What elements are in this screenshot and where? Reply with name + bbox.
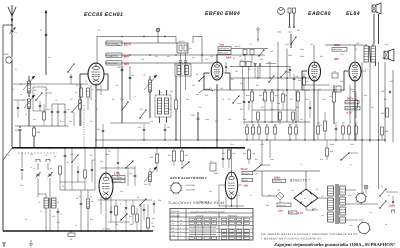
svg-text:C50a: C50a — [270, 158, 274, 161]
svg-text:P9: P9 — [137, 196, 139, 199]
svg-text:A1: A1 — [48, 56, 50, 59]
svg-text:R4: R4 — [76, 84, 78, 87]
svg-text:C4a: C4a — [70, 153, 73, 156]
svg-text:R19: R19 — [210, 55, 213, 58]
svg-text:C20: C20 — [117, 66, 120, 69]
svg-text:C42a: C42a — [305, 98, 309, 101]
svg-text:L2: L2 — [50, 167, 52, 170]
svg-text:R21: R21 — [231, 78, 234, 81]
svg-text:P1: P1 — [8, 154, 10, 157]
svg-text:R22: R22 — [215, 120, 218, 123]
svg-text:560: 560 — [33, 118, 36, 121]
svg-text:CTI 100M: CTI 100M — [102, 228, 111, 231]
svg-text:R47: R47 — [318, 88, 321, 91]
svg-text:C15: C15 — [167, 55, 170, 58]
svg-text:Tr1: Tr1 — [300, 163, 303, 166]
svg-text:A1: A1 — [75, 224, 77, 227]
svg-text:C35: C35 — [240, 82, 243, 85]
svg-text:OKO: OKO — [4, 53, 9, 56]
svg-text:R26: R26 — [271, 108, 274, 111]
svg-text:C39: C39 — [284, 94, 287, 97]
svg-text:C45: C45 — [329, 95, 332, 98]
svg-text:L4: L4 — [20, 93, 22, 96]
svg-text:+ MERENO NA POCATKU ROZSAHU SV: + MERENO NA POCATKU ROZSAHU SV — [261, 237, 322, 240]
svg-text:R9: R9 — [110, 55, 112, 58]
svg-text:A3: A3 — [25, 218, 27, 221]
svg-text:R3: R3 — [62, 185, 64, 188]
svg-text:P6: P6 — [228, 98, 230, 101]
svg-text:L19: L19 — [321, 214, 324, 217]
svg-text:R32: R32 — [116, 171, 119, 174]
svg-text:R30a: R30a — [300, 55, 304, 58]
svg-text:PRECTENO: PRECTENO — [333, 48, 343, 51]
svg-text:5-5: 5-5 — [97, 88, 100, 91]
svg-text:C5: C5 — [25, 113, 27, 116]
svg-text:R62: R62 — [130, 223, 133, 226]
svg-text:C7: C7 — [22, 99, 24, 102]
svg-text:NASTAVENO: NASTAVENO — [107, 54, 119, 57]
svg-text:1k: 1k — [85, 80, 87, 83]
svg-text:L6: L6 — [40, 210, 42, 213]
svg-text:C48: C48 — [381, 90, 384, 93]
svg-text:PRECTENO: PRECTENO — [107, 62, 118, 65]
svg-text:EBF80 EM84: EBF80 EM84 — [205, 11, 240, 17]
svg-text:EM84: EM84 — [214, 172, 218, 175]
svg-text:- EL EL84: - EL EL84 — [185, 189, 195, 192]
svg-text:C28a: C28a — [277, 31, 281, 34]
svg-text:R40: R40 — [246, 124, 249, 127]
svg-text:P4: P4 — [112, 98, 114, 101]
svg-text:C47b: C47b — [260, 143, 264, 146]
svg-text:C24: C24 — [140, 108, 143, 111]
svg-text:C54: C54 — [90, 218, 93, 221]
svg-text:76V: 76V — [124, 62, 131, 66]
svg-text:R49: R49 — [340, 80, 343, 83]
svg-text:R37: R37 — [129, 215, 132, 218]
svg-text:C29: C29 — [288, 31, 291, 34]
svg-text:150: 150 — [57, 221, 60, 224]
svg-text:R31: R31 — [297, 29, 300, 32]
svg-text:R34: R34 — [185, 154, 188, 157]
svg-text:C31: C31 — [248, 68, 251, 71]
svg-text:C41: C41 — [310, 43, 313, 46]
svg-text:C44: C44 — [305, 80, 308, 83]
svg-text:107V: 107V — [124, 43, 132, 47]
svg-text:KLIDOVE: KLIDOVE — [196, 214, 204, 217]
svg-text:C22: C22 — [115, 84, 118, 87]
svg-text:P1: P1 — [381, 185, 383, 188]
svg-text:120/6,3VA: 120/6,3VA — [278, 204, 287, 207]
svg-text:R11: R11 — [155, 55, 158, 58]
svg-text:C26a: C26a — [205, 118, 209, 121]
svg-text:C17: C17 — [70, 98, 73, 101]
svg-text:B1: B1 — [292, 189, 294, 192]
svg-text:B2: B2 — [316, 188, 318, 191]
svg-text:L3: L3 — [20, 83, 22, 86]
svg-text:EL84: EL84 — [346, 11, 360, 17]
svg-text:C44: C44 — [258, 124, 261, 127]
svg-text:C14: C14 — [60, 120, 63, 123]
svg-text:P8: P8 — [288, 71, 290, 74]
svg-text:C51: C51 — [355, 122, 358, 125]
svg-text:C33: C33 — [220, 87, 223, 90]
svg-text:L4 L5: L4 L5 — [144, 183, 149, 186]
svg-text:14V: 14V — [226, 56, 231, 60]
svg-text:10n: 10n — [295, 124, 298, 127]
svg-text:PRI MERENI NAPETI A PROUDU PRE: PRI MERENI NAPETI A PROUDU PREPINAC PRIJ… — [261, 233, 358, 236]
svg-text:C3: C3 — [79, 195, 81, 198]
svg-text:C34: C34 — [108, 150, 111, 153]
svg-text:R8: R8 — [90, 120, 92, 123]
svg-text:L17: L17 — [143, 74, 146, 77]
svg-text:ECC85 ECH81: ECC85 ECH81 — [84, 12, 123, 18]
svg-text:C36: C36 — [120, 190, 123, 193]
svg-text:C1a: C1a — [20, 184, 23, 187]
svg-text:P7: P7 — [250, 43, 252, 46]
svg-text:R50: R50 — [289, 124, 292, 127]
svg-text:Tr2: Tr2 — [356, 42, 359, 45]
svg-text:100: 100 — [152, 225, 155, 228]
svg-text:C55: C55 — [268, 194, 271, 197]
svg-text:207V: 207V — [347, 97, 354, 101]
svg-text:C50: C50 — [335, 122, 338, 125]
svg-text:P2a: P2a — [320, 158, 323, 161]
svg-text:C30b: C30b — [285, 43, 289, 46]
svg-text:C1: C1 — [15, 31, 17, 34]
svg-text:C27: C27 — [233, 57, 236, 60]
svg-text:Rep: Rep — [385, 43, 388, 46]
svg-text:C32a: C32a — [288, 54, 292, 57]
svg-text:R23: R23 — [240, 108, 243, 111]
svg-text:R55: R55 — [390, 80, 393, 83]
svg-text:L1: L1 — [33, 167, 35, 170]
svg-text:R59: R59 — [330, 150, 333, 153]
svg-text:C1b: C1b — [30, 153, 33, 156]
svg-text:C34a: C34a — [105, 153, 109, 156]
svg-text:Sv: Sv — [388, 194, 390, 197]
svg-text:R25: R25 — [262, 98, 265, 101]
svg-text:R24: R24 — [256, 84, 259, 87]
svg-text:P2: P2 — [46, 88, 48, 91]
svg-text:C38: C38 — [277, 102, 280, 105]
svg-text:AKCE ELEKTRONIKY: AKCE ELEKTRONIKY — [169, 176, 208, 180]
svg-text:Sp: Sp — [385, 223, 387, 226]
svg-text:L1a L1b: L1a L1b — [234, 45, 241, 48]
svg-text:R60: R60 — [237, 194, 240, 197]
svg-text:C4: C4 — [54, 155, 56, 158]
svg-text:230V: 230V — [389, 205, 395, 208]
svg-text:C29: C29 — [270, 50, 273, 53]
svg-text:R16: R16 — [168, 108, 171, 111]
svg-text:24V: 24V — [278, 209, 283, 212]
svg-text:R27: R27 — [290, 98, 293, 101]
svg-text:R6: R6 — [75, 91, 77, 94]
svg-text:R31a: R31a — [300, 48, 304, 51]
svg-text:R38: R38 — [158, 199, 161, 202]
svg-text:R5: R5 — [90, 154, 92, 157]
svg-text:C26: C26 — [191, 114, 194, 117]
svg-text:C52: C52 — [209, 190, 212, 193]
svg-text:220V: 220V — [359, 219, 364, 222]
svg-text:TLACITKO: TLACITKO — [171, 210, 180, 213]
svg-text:94V: 94V — [334, 57, 339, 61]
svg-text:4,7V: 4,7V — [298, 212, 304, 215]
svg-text:C37: C37 — [261, 106, 264, 109]
svg-text:C9: C9 — [55, 99, 57, 102]
svg-text:R30: R30 — [37, 131, 40, 134]
svg-text:P5: P5 — [196, 73, 198, 76]
svg-text:R37a: R37a — [230, 143, 234, 146]
svg-text:B250C75 *: B250C75 * — [290, 179, 310, 183]
svg-text:R18: R18 — [196, 93, 199, 96]
svg-text:180: 180 — [69, 120, 72, 123]
svg-text:Tr2: Tr2 — [355, 48, 358, 51]
svg-text:C47: C47 — [371, 106, 374, 109]
svg-text:C2b: C2b — [186, 98, 189, 101]
svg-text:R17: R17 — [199, 106, 202, 109]
svg-text:L10 L20: L10 L20 — [178, 40, 185, 43]
svg-text:150: 150 — [52, 215, 55, 218]
svg-text:Ja: Ja — [91, 200, 93, 203]
svg-text:R20: R20 — [205, 94, 208, 97]
svg-text:R1: R1 — [98, 29, 100, 32]
svg-text:C3: C3 — [76, 197, 78, 200]
svg-text:3: 3 — [362, 98, 363, 101]
svg-text:C45a: C45a — [350, 88, 354, 91]
svg-text:7MA: 7MA — [219, 44, 224, 47]
svg-text:R35: R35 — [150, 156, 153, 159]
svg-text:EABC80: EABC80 — [308, 11, 331, 17]
svg-text:- EL EL84: - EL EL84 — [185, 184, 195, 187]
svg-text:L2: L2 — [57, 201, 59, 204]
svg-text:C1: C1 — [15, 68, 17, 71]
svg-text:C31: C31 — [167, 126, 170, 129]
svg-text:L1: L1 — [30, 166, 32, 169]
svg-text:R45: R45 — [274, 124, 277, 127]
svg-text:P43: P43 — [252, 124, 255, 127]
svg-text:Po1: Po1 — [350, 224, 353, 227]
svg-text:PRECTENO: PRECTENO — [219, 51, 229, 54]
svg-text:R58: R58 — [385, 130, 388, 133]
svg-text:0,5: 0,5 — [12, 88, 14, 91]
svg-text:PREPNUTO: PREPNUTO — [228, 214, 238, 217]
svg-text:C43: C43 — [300, 118, 303, 121]
svg-text:0,1: 0,1 — [134, 95, 136, 98]
svg-text:C51a: C51a — [350, 143, 354, 146]
svg-text:C8: C8 — [34, 89, 36, 92]
svg-text:50: 50 — [239, 55, 241, 58]
svg-text:1k: 1k — [266, 124, 268, 127]
svg-text:TLACITKOVY PREPINAC PV-35: TLACITKOVY PREPINAC PV-35 — [168, 201, 225, 205]
svg-text:C34: C34 — [100, 160, 103, 163]
svg-text:C2: C2 — [40, 29, 42, 32]
svg-text:28,1V: 28,1V — [241, 168, 248, 171]
svg-text:Ja: Ja — [90, 195, 92, 198]
svg-text:C30: C30 — [138, 126, 141, 129]
svg-text:R47a: R47a — [322, 98, 326, 101]
svg-text:C11: C11 — [117, 44, 120, 47]
svg-text:R58a: R58a — [330, 143, 334, 146]
svg-text:R54: R54 — [384, 98, 387, 101]
svg-text:L8b: L8b — [235, 70, 238, 73]
svg-text:L1: L1 — [38, 201, 40, 204]
svg-text:C32: C32 — [15, 129, 18, 132]
svg-text:R7: R7 — [96, 108, 98, 111]
svg-text:7: 7 — [310, 86, 311, 89]
svg-text:96V: 96V — [124, 55, 131, 59]
svg-text:15k: 15k — [66, 161, 69, 164]
svg-text:1-2: 1-2 — [365, 68, 368, 71]
svg-text:C28: C28 — [228, 118, 231, 121]
svg-text:R56: R56 — [381, 112, 384, 115]
svg-text:A1: A1 — [70, 238, 72, 241]
svg-text:C40a: C40a — [340, 53, 344, 56]
svg-text:NASTAVENO: NASTAVENO — [219, 47, 230, 50]
svg-text:OZNACENI: OZNACENI — [171, 214, 180, 217]
svg-text:C19: C19 — [205, 58, 208, 61]
svg-text:C53: C53 — [115, 223, 118, 226]
svg-text:10V: 10V — [244, 184, 249, 187]
svg-text:220k: 220k — [120, 98, 124, 101]
svg-text:L7: L7 — [60, 213, 62, 216]
svg-text:R53: R53 — [317, 122, 320, 125]
svg-text:R29: R29 — [260, 58, 263, 61]
svg-text:Po: Po — [370, 211, 372, 214]
svg-text:C42: C42 — [152, 217, 155, 220]
svg-text:5: 5 — [370, 98, 371, 101]
svg-text:L5: L5 — [45, 154, 47, 157]
svg-text:R33: R33 — [168, 154, 171, 157]
svg-text:R57: R57 — [342, 122, 345, 125]
svg-text:R61: R61 — [255, 158, 258, 161]
svg-text:3 4: 3 4 — [209, 87, 212, 90]
svg-text:4,7V: 4,7V — [346, 111, 352, 115]
svg-text:R46: R46 — [320, 55, 323, 58]
svg-text:C45: C45 — [129, 172, 132, 175]
svg-text:C25: C25 — [192, 84, 195, 87]
svg-text:A15: A15 — [342, 89, 345, 92]
svg-text:R28: R28 — [296, 106, 299, 109]
svg-text:C13: C13 — [141, 58, 144, 61]
svg-text:L18: L18 — [150, 120, 153, 123]
svg-text:6: 6 — [385, 88, 386, 91]
svg-text:C36a: C36a — [237, 102, 241, 105]
svg-text:R52: R52 — [364, 94, 367, 97]
svg-text:T2: T2 — [160, 91, 162, 94]
svg-text:5k: 5k — [222, 98, 224, 101]
svg-text:OZNACENI TLACITEK PRI SPODNI P: OZNACENI TLACITEK PRI SPODNI POLOZE — [190, 210, 226, 213]
svg-text:C49: C49 — [266, 204, 269, 207]
svg-text:R15: R15 — [170, 90, 173, 93]
